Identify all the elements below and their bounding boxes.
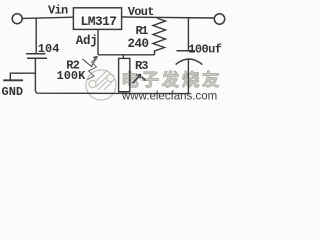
watermark logo circle: [86, 70, 116, 100]
wire Adj node horizontal: [98, 54, 155, 56]
regulator U1 LM317 box: [73, 8, 121, 30]
wire Adj pin of LM317: [97, 29, 99, 54]
svg-text:R1: R1: [136, 24, 149, 38]
wire GND branch: [10, 73, 35, 80]
svg-text:100uf: 100uf: [188, 43, 221, 57]
wire capacitor C1 to bottom rail: [34, 58, 36, 91]
svg-text:240: 240: [128, 37, 149, 51]
watermark text 电子发烧友: [123, 71, 219, 88]
capacitor C1 plate bottom: [27, 57, 47, 59]
wire LM317 to output terminal: [122, 17, 215, 18]
svg-text:R3: R3: [135, 59, 148, 73]
capacitor C2 curved plate: [176, 59, 203, 65]
resistor R1 zigzag: [153, 17, 166, 54]
svg-text:GND: GND: [2, 85, 24, 99]
wire branch to capacitor C2: [187, 18, 189, 50]
potentiometer R2 arrow: [83, 56, 98, 67]
output terminal: [214, 14, 224, 24]
resistor R3 box: [119, 55, 130, 94]
dark cursor arrow mark: [133, 74, 146, 83]
svg-text:www.elecfans.com: www.elecfans.com: [121, 91, 217, 103]
svg-text:100K: 100K: [57, 69, 87, 83]
bottom rail wire: [35, 91, 190, 93]
input terminal: [12, 14, 22, 24]
ground: [3, 79, 23, 81]
capacitor C1 plate top: [26, 53, 46, 55]
svg-text:104: 104: [38, 42, 60, 56]
wire input to LM317: [23, 17, 74, 18]
svg-text:Vin: Vin: [48, 4, 68, 18]
svg-text:Adj: Adj: [76, 34, 98, 48]
wire branch to capacitor C1: [35, 18, 37, 54]
svg-text:LM317: LM317: [81, 14, 117, 29]
wire capacitor C2 to bottom rail: [187, 59, 189, 93]
potentiometer R2 body zigzag: [88, 57, 99, 80]
capacitor C2 plate: [177, 50, 196, 52]
